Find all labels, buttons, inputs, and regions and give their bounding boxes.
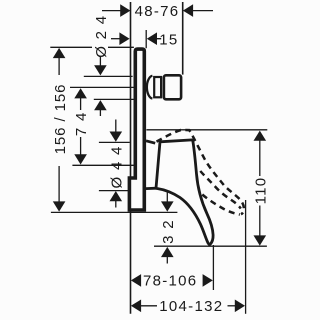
ref line ring top (Ø24 top) [84, 75, 133, 77]
dimension 110 label [252, 177, 269, 205]
extension line raised tip (104-132 right) [245, 200, 247, 314]
dimension Ø24 line [99, 55, 101, 116]
dimension 32 label [159, 218, 177, 245]
lever handle raised position (dashed) middle edge [200, 171, 241, 209]
ref line knob center (74 top) [70, 86, 134, 88]
ref line handle top (Ø44 top) [99, 141, 130, 143]
extension line grip tip (78-106 right) [212, 245, 214, 290]
dimension 74 arrows [74, 88, 87, 164]
svg-text:Ø 4 4: Ø 4 4 [108, 145, 125, 188]
ref line grip bottom (32 bottom / 110 bottom) [154, 245, 267, 247]
ref line pivot center (74 bottom) [72, 164, 134, 166]
ref line handle bottom (Ø44 bottom) [99, 190, 134, 192]
dimension Ø24 label [92, 15, 110, 58]
ref line plate bottom (156 bottom / 32 top) [51, 211, 177, 213]
wall plane line [130, 2, 132, 314]
handle neck top edge [146, 141, 155, 143]
dimension 74 label [72, 111, 90, 137]
lever handle raised position (dashed) lower edge [202, 195, 240, 215]
ref line plate top (156 top) [50, 46, 134, 48]
dimension 156/156 label [52, 75, 69, 163]
svg-text:7 4: 7 4 [73, 111, 90, 136]
dimension 156/156 line [58, 56, 60, 204]
svg-text:Ø 2 4: Ø 2 4 [93, 15, 110, 58]
dimension Ø44 label [108, 145, 125, 188]
dimension 15 row [111, 30, 179, 49]
svg-text:156 / 156: 156 / 156 [52, 84, 69, 155]
escutcheon plate (side profile with lower-left step) [129, 49, 144, 210]
lever handle body and grip [156, 140, 213, 244]
dimension 110 line [259, 139, 261, 237]
dimension 104-132 row [131, 298, 245, 315]
lever handle raised position (dashed) upper edge [157, 130, 244, 214]
ref line raised handle top (110 top) [146, 129, 267, 131]
svg-text:78-106: 78-106 [143, 273, 198, 290]
ref line ring bottom (Ø24 bottom) [94, 98, 135, 100]
dimension Ø44 arrows [110, 132, 123, 202]
dimension 48-76 top row [102, 3, 213, 20]
cartridge dome joint [147, 76, 153, 99]
cartridge knob [164, 75, 181, 99]
handle neck bottom edge [146, 187, 157, 190]
svg-text:110: 110 [252, 177, 269, 205]
svg-text:3 2: 3 2 [160, 219, 177, 244]
svg-text:104-132: 104-132 [159, 298, 223, 315]
dimension 78-106 row [131, 273, 213, 290]
svg-text:48-76: 48-76 [135, 3, 180, 20]
dimension 74 line [80, 98, 82, 156]
dimension 32 arrows [161, 201, 174, 257]
cartridge ring [154, 77, 161, 97]
dimension 156/156 arrows [53, 48, 66, 212]
dimension Ø44 line [115, 120, 117, 208]
dimension 32 line [166, 181, 168, 264]
dimension Ø24 arrows [94, 65, 107, 110]
svg-text:15: 15 [159, 32, 178, 49]
dimension 110 arrows [254, 131, 267, 246]
extension line knob front (48-76 right) [182, 2, 184, 75]
